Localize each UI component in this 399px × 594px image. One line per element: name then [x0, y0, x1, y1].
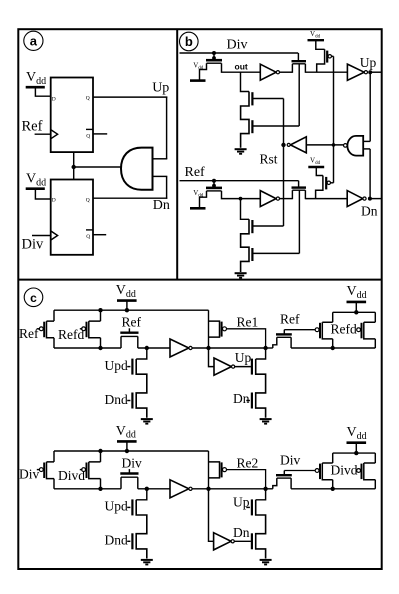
AND input stub from Dn	[153, 175, 168, 177]
row2 left stack ground	[141, 560, 153, 565]
row1 Vdd supply (center)	[116, 283, 137, 310]
Dn label (panel b)	[361, 204, 378, 219]
row1 pass PMOS A gate stub	[37, 328, 39, 330]
Rst label	[260, 152, 278, 167]
row2 Upd gate stub	[127, 506, 130, 508]
NMOS M7 channel bracket	[241, 219, 249, 272]
row2 PMOS C gate bar	[221, 462, 223, 477]
Ref input label	[22, 119, 43, 135]
ground G1	[235, 149, 247, 154]
row1 wire buffer out	[192, 347, 208, 349]
NMOS stack2 drain drop	[241, 199, 250, 220]
row2 wire inverter to Dn gate	[234, 540, 251, 542]
svg-text:c: c	[30, 291, 37, 305]
svg-text:a: a	[30, 33, 38, 48]
row2 right pass PMOS E bubble	[357, 469, 361, 473]
row1 right pass PMOS E gate bar	[361, 323, 363, 339]
net M8 gate vertical	[298, 190, 300, 253]
net Up: vertical to AND input	[166, 97, 168, 159]
row1 left stack NMOS upper channel bracket	[136, 359, 147, 418]
row2 right pass E verticals	[374, 453, 376, 489]
FF1 clock triangle	[51, 130, 58, 139]
wire Div to FF2 clock	[32, 235, 51, 237]
FF1 pin D	[52, 96, 56, 102]
svg-text:Upd: Upd	[105, 499, 128, 514]
row2 PMOS C bubble	[223, 468, 227, 472]
row1 right stack NMOS lower gate bar	[251, 393, 253, 409]
row2 Up gate stub	[246, 506, 250, 508]
net M2 gate to Rst	[252, 98, 283, 100]
row1 Ref net label (right)	[280, 312, 300, 327]
panel label b	[180, 32, 199, 51]
svg-text:Divd: Divd	[331, 463, 358, 478]
PMOS M5 gate bar	[326, 51, 328, 63]
svg-text:Div: Div	[22, 237, 45, 253]
row2 right pass PMOS D bubble	[315, 469, 319, 473]
reset vertical between FF1 and FF2	[73, 152, 75, 179]
rail NAND input to Dn	[369, 149, 371, 199]
Vdd supply for DFF2	[26, 172, 51, 200]
row1 pass PMOS B gate bar	[86, 322, 88, 338]
svg-text:Re1: Re1	[237, 315, 259, 330]
row2 left stack drain drop	[136, 489, 147, 500]
row1 keeper K2 gate stub	[283, 330, 285, 335]
svg-text:Ref: Ref	[122, 315, 142, 330]
PMOS M6 (Ref input) drain to output	[222, 191, 232, 199]
PMOS M1 (Div input) channel	[207, 62, 222, 64]
FF1 pin Q	[86, 96, 90, 102]
row2 Dn inverter input drop	[209, 489, 214, 542]
NMOS M3 gate bar	[251, 120, 253, 133]
row2 pass PMOS B (Divd) channel	[89, 462, 101, 479]
wire Up to border	[370, 71, 382, 73]
row1 keeper K1 gate stub	[128, 328, 130, 332]
row2 Upd label	[105, 499, 128, 514]
PMOS M1 (Div input) source to supply	[200, 63, 207, 80]
Ref label (panel b)	[185, 165, 206, 180]
row2 right block top rail	[333, 452, 376, 454]
svg-text:b: b	[185, 34, 193, 49]
PMOS M10 gate lead	[331, 182, 334, 184]
row2 right stack NMOS upper channel bracket	[256, 500, 266, 559]
AND gate U1 (mirrored)	[121, 148, 153, 190]
svg-text:Q: Q	[86, 197, 90, 203]
junction dot precharge gates to NAND out	[332, 143, 336, 147]
wire AND output to reset net	[74, 166, 122, 168]
row2 Dn inverter	[214, 533, 235, 550]
row2 keeper K1 gate stub	[128, 469, 130, 473]
svg-text:Dn: Dn	[233, 525, 250, 540]
row1 pass A verticals	[53, 310, 55, 348]
M6 vdd label	[193, 189, 204, 199]
row2 pass A verticals	[53, 451, 55, 489]
inverter U5 (Rst, mirrored)	[287, 137, 306, 153]
row2 pass PMOS B gate bar	[86, 463, 88, 479]
inverter U3 (Up buffer)	[347, 64, 367, 80]
row2 net Re2 wire	[227, 470, 266, 489]
row2 Up label	[233, 494, 250, 509]
row1 pass PMOS A gate bar	[43, 322, 45, 338]
row2 junction dots pass B	[98, 449, 102, 491]
row2 Re2 label	[237, 456, 259, 471]
row1 junction dot right Vdd	[354, 310, 358, 314]
row1 keeper K1 gate bar	[120, 332, 138, 334]
NAND input stub bottom	[363, 148, 370, 150]
PMOS M10 gate bubble	[327, 181, 330, 184]
svg-text:Re2: Re2	[237, 456, 259, 471]
keeper MOS M9 gate drop from Ref	[298, 181, 300, 187]
net Dn: FF2 Q wire	[93, 197, 167, 199]
row2 Vdd supply (center)	[116, 424, 137, 451]
svg-text:D: D	[52, 96, 56, 102]
NMOS M2 gate bar	[251, 92, 253, 105]
row2 keeper K1 leads	[121, 477, 138, 489]
row1 right pass PMOS D channel	[322, 322, 332, 339]
row2 bottom rail seg2	[138, 488, 170, 490]
junction dot on reset net	[72, 165, 76, 169]
net Div: input wire	[180, 52, 299, 54]
row2 keeper K2 leads	[273, 478, 291, 489]
Vdd supply for DFF1	[26, 70, 51, 96]
row2 left stack NMOS upper channel bracket	[136, 500, 147, 559]
svg-text:Ref: Ref	[19, 326, 39, 341]
PMOS M1 (Div input) supply bar	[190, 79, 206, 82]
row2 junction dot right Vdd	[354, 451, 358, 455]
net Rst vertical	[283, 99, 285, 227]
FF1 pin Qbar with overbar	[86, 129, 93, 139]
D flip-flop FF2 box	[51, 180, 93, 255]
net M3 gate vertical	[298, 64, 300, 126]
PMOS M6 (Ref input) source to supply	[200, 191, 207, 208]
row1 Dnd label	[105, 392, 128, 407]
row2 keeper K1 channel	[121, 476, 138, 478]
row2 left stack NMOS lower gate bar	[131, 533, 133, 549]
D flip-flop FF1 box	[51, 78, 93, 153]
PMOS M10 gate bar	[325, 177, 327, 190]
row2 pass PMOS A gate stub	[37, 469, 39, 471]
panel label a	[24, 31, 43, 50]
row2 keeper K1 gate bar	[120, 472, 138, 474]
row1 right pass PMOS E channel	[364, 322, 376, 339]
row2 pass B verticals	[100, 451, 102, 489]
svg-text:Ref: Ref	[22, 119, 43, 135]
row1 right stack drain drop	[256, 348, 266, 359]
row1 right pass E verticals	[374, 312, 376, 348]
net Dn: vertical from AND input	[166, 176, 168, 198]
row2 pass PMOS B bubble	[82, 468, 86, 472]
row1 left stack NMOS upper gate bar	[131, 359, 133, 375]
row1 wire Ref to right block	[284, 329, 315, 331]
svg-text:Q: Q	[86, 133, 90, 139]
row2 keeper K2 gate bar	[276, 474, 292, 476]
wire out_b segment 2	[305, 71, 347, 73]
panel label c	[24, 288, 43, 307]
PMOS M5 gate bubble	[328, 55, 331, 58]
row1 left stack ground	[141, 419, 153, 424]
wire out node	[231, 71, 260, 73]
svg-text:Dn: Dn	[153, 198, 170, 213]
PMOS M6 (Ref input) supply bar	[190, 207, 206, 210]
row1 Upd gate stub	[127, 366, 130, 368]
PMOS M1 (Div input) gate lead with junction dots	[212, 51, 216, 60]
NMOS M7 gate bar	[251, 220, 253, 233]
row1 Dnd gate stub	[127, 400, 130, 402]
junction dot Rst	[281, 143, 285, 147]
row1 keeper K1 leads	[121, 336, 138, 348]
row1 junction dot stack-left	[145, 346, 149, 350]
row1 junction dots pass B	[98, 308, 102, 350]
row2 buffer inverter	[170, 480, 192, 498]
row1 keeper K2 gate bar	[276, 333, 292, 335]
row1 junction dot right block	[331, 346, 335, 350]
NMOS M2 channel bracket	[241, 92, 249, 148]
row2 pass PMOS A (Div) channel	[47, 462, 55, 479]
svg-text:Q: Q	[86, 234, 90, 240]
row1 Up inverter	[214, 358, 235, 375]
row1 keeper K1 channel	[121, 335, 138, 337]
row2 right stack ground	[260, 560, 272, 565]
row2 junction dot Re2	[263, 487, 267, 491]
row1 PMOS C vertical	[208, 310, 210, 348]
row1 Dn label	[233, 391, 250, 406]
svg-text:Dnd: Dnd	[105, 533, 128, 548]
row1 Ref input label	[19, 326, 39, 341]
row1 pass PMOS B (Refd) channel	[89, 321, 101, 338]
svg-text:Ref: Ref	[185, 165, 206, 180]
svg-text:Div: Div	[280, 453, 301, 468]
row1 Upd label	[105, 358, 128, 373]
svg-text:Div: Div	[227, 38, 248, 53]
row1 PMOS C channel	[209, 321, 220, 337]
net M7 gate to Rst	[252, 225, 283, 227]
M1 vdd label	[193, 62, 204, 72]
row1 pass B verticals	[100, 310, 102, 348]
PMOS M1 (Div input) gate bar	[206, 59, 222, 62]
FF2 clock triangle	[51, 231, 58, 240]
wire NAND out to inverter U5	[306, 144, 343, 146]
row1 PMOS C gate bar	[221, 322, 223, 337]
row2 wire buffer out	[192, 488, 208, 490]
row1 bottom rail seg2	[138, 347, 170, 349]
PMOS M6 (Ref input) channel	[207, 190, 222, 192]
Up output label	[152, 80, 169, 95]
row2 right pass PMOS D channel	[322, 463, 332, 480]
svg-text:Up: Up	[235, 350, 252, 365]
svg-text:D: D	[52, 198, 56, 204]
row2 Div net label (right)	[280, 453, 301, 468]
row2 pass PMOS A bubble	[39, 468, 43, 472]
row1 right block bottom rail	[291, 347, 375, 349]
row2 wire Div to right block	[284, 470, 315, 472]
row1 left stack drain drop	[136, 348, 147, 359]
row2 pass PMOS A gate bar	[43, 463, 45, 479]
row1 right pass PMOS E bubble	[357, 328, 361, 332]
net M3 gate lead	[252, 125, 299, 127]
row1 right block top rail	[333, 311, 376, 313]
row1 keeper K2 leads	[273, 337, 291, 348]
row1 junction dot buffer out	[206, 346, 210, 350]
NAND U4 output bubble	[344, 144, 348, 148]
row2 Div input label	[19, 467, 40, 482]
row1 pass PMOS A bubble	[39, 327, 43, 331]
keeper MOS M4 source lead	[291, 64, 293, 73]
row1 Refd label (right)	[331, 322, 357, 337]
row2 left stack NMOS upper gate bar	[131, 499, 133, 515]
svg-text:Ref: Ref	[280, 312, 300, 327]
row2 wire rail mid	[209, 488, 266, 490]
FF2 pin D	[52, 198, 56, 204]
inverter U2	[260, 64, 279, 80]
svg-text:Div: Div	[122, 455, 143, 470]
row2 junction dot buffer out	[206, 487, 210, 491]
row1 Up inverter input drop	[209, 348, 215, 367]
row2 Dn label	[233, 525, 250, 540]
row2 Divd label	[58, 468, 85, 483]
row2 top rail	[54, 450, 209, 452]
row2 right block bottom rail	[291, 488, 375, 490]
keeper MOS M4 gate drop from Div	[297, 53, 299, 60]
svg-text:Dnd: Dnd	[105, 392, 128, 407]
junction dot Up	[368, 70, 372, 74]
keeper MOS M9 drain lead	[304, 190, 306, 199]
row1 right Vdd supply	[347, 284, 367, 312]
row2 pass PMOS B gate stub	[80, 469, 83, 471]
row1 Refd label	[58, 327, 84, 342]
wire dn_b segment 2	[305, 198, 347, 200]
row2 right pass PMOS E channel	[364, 463, 376, 480]
PMOS M5 gate lead	[332, 55, 334, 57]
row2 junction dot Vdd-rail	[125, 449, 129, 453]
row1 PMOS C bubble	[223, 327, 227, 331]
svg-text:Refd: Refd	[331, 322, 357, 337]
row1 left stack NMOS lower gate bar	[131, 393, 133, 409]
FF2 pin Qbar with overbar	[86, 230, 93, 240]
row2 Dnd gate stub	[127, 540, 130, 542]
row2 Divd label (right)	[331, 463, 358, 478]
PMOS M1 (Div input) drain to output	[222, 63, 232, 72]
row2 right pass PMOS D gate bar	[319, 464, 321, 480]
PMOS M5 channel	[317, 49, 325, 72]
svg-text:Dn: Dn	[361, 204, 378, 219]
node out label	[235, 61, 248, 71]
keeper MOS M9 source lead	[291, 190, 293, 199]
NMOS stack1 drain drop	[241, 72, 250, 91]
NAND input stub top	[363, 140, 370, 142]
FF2 pin Q	[86, 197, 90, 203]
row1 net Re1 wire	[227, 329, 266, 348]
PMOS M5 supply	[308, 30, 325, 49]
row2 PMOS C channel	[209, 462, 220, 478]
row1 keeper K2 channel	[277, 336, 291, 338]
row1 wire rail to keeper K2	[266, 347, 273, 349]
PMOS M6 (Ref input) gate lead with junction dots	[212, 179, 216, 188]
row2 keeper K2 gate stub	[283, 471, 285, 476]
row1 junction dot Vdd-rail	[125, 308, 129, 312]
wire out_b segment 1	[280, 71, 293, 73]
row1 right pass D verticals	[332, 312, 334, 348]
row1 wire inverter to Up gate	[235, 366, 251, 368]
keeper MOS M9 channel	[292, 189, 305, 191]
svg-text:Rst: Rst	[260, 152, 278, 167]
junction dot Dn	[368, 197, 372, 201]
wire Ref to FF1 clock	[35, 133, 51, 135]
junction dot M6 drain	[239, 197, 243, 201]
row2 bottom rail seg1	[54, 488, 121, 490]
rail Up to NAND input	[369, 72, 371, 141]
inverter U7 (Dn buffer)	[347, 191, 366, 207]
row2 right stack NMOS lower gate bar	[251, 533, 253, 549]
row2 right stack NMOS upper gate bar	[251, 499, 253, 515]
row2 keeper MOS K1 label	[122, 455, 143, 470]
row1 pass PMOS A (Ref) channel	[47, 321, 55, 338]
row2 right Vdd supply	[347, 425, 367, 453]
row1 right stack ground	[260, 419, 272, 424]
row2 junction dot stack-left	[145, 487, 149, 491]
row2 keeper K2 channel	[277, 477, 291, 479]
row2 right pass PMOS E gate bar	[361, 464, 363, 480]
panel divider ab|c	[18, 279, 381, 281]
wire ref stage output	[231, 198, 260, 200]
row1 Dn gate stub	[246, 400, 250, 402]
row2 PMOS C vertical	[208, 451, 210, 489]
svg-text:out: out	[235, 61, 248, 71]
row1 pass PMOS B bubble	[82, 327, 86, 331]
keeper MOS M9 gate bar	[292, 186, 307, 188]
PMOS M6 (Ref input) gate bar	[206, 187, 222, 190]
row2 right stack drain drop	[256, 489, 266, 500]
row1 Up label	[235, 350, 252, 365]
svg-text:Q: Q	[86, 96, 90, 102]
ground G2	[235, 273, 247, 278]
net Ref: input wire	[180, 180, 299, 182]
row1 top rail	[54, 309, 209, 311]
row1 Re1 label	[237, 315, 259, 330]
keeper MOS M4 drain lead	[304, 64, 306, 73]
AND input stub from Up	[153, 158, 168, 160]
Div input label	[22, 237, 45, 253]
keeper MOS M4 gate bar	[292, 60, 307, 62]
keeper MOS M4 channel	[292, 63, 305, 65]
inverter U6	[260, 191, 279, 207]
svg-text:Dn: Dn	[233, 391, 250, 406]
row1 junction dot Re1	[263, 346, 267, 350]
row1 right stack NMOS upper gate bar	[251, 359, 253, 375]
FF2 Qbar stub	[93, 234, 106, 236]
panel divider a|b	[176, 29, 178, 279]
Up label (panel b)	[360, 55, 377, 70]
wire Dn to border	[370, 198, 382, 200]
row2 right pass D verticals	[332, 453, 334, 489]
row1 pass PMOS B gate stub	[80, 328, 83, 330]
Div label	[227, 38, 248, 53]
PMOS M10 channel	[316, 176, 323, 199]
svg-text:Div: Div	[19, 467, 40, 482]
net M8 gate lead	[252, 252, 299, 254]
row1 right pass PMOS D bubble	[315, 328, 319, 332]
row1 bottom rail seg1	[54, 347, 121, 349]
row2 wire rail to keeper K2	[266, 488, 273, 490]
svg-text:Up: Up	[360, 55, 377, 70]
row1 wire rail mid	[209, 347, 266, 349]
NMOS M8 gate bar	[251, 248, 253, 261]
row1 right pass PMOS D gate bar	[319, 323, 321, 339]
row2 Dnd label	[105, 533, 128, 548]
Dn output label	[153, 198, 170, 213]
svg-text:Up: Up	[152, 80, 169, 95]
precharge gate vertical	[333, 56, 335, 183]
row1 buffer inverter	[170, 339, 192, 357]
row2 junction dot right block	[331, 487, 335, 491]
